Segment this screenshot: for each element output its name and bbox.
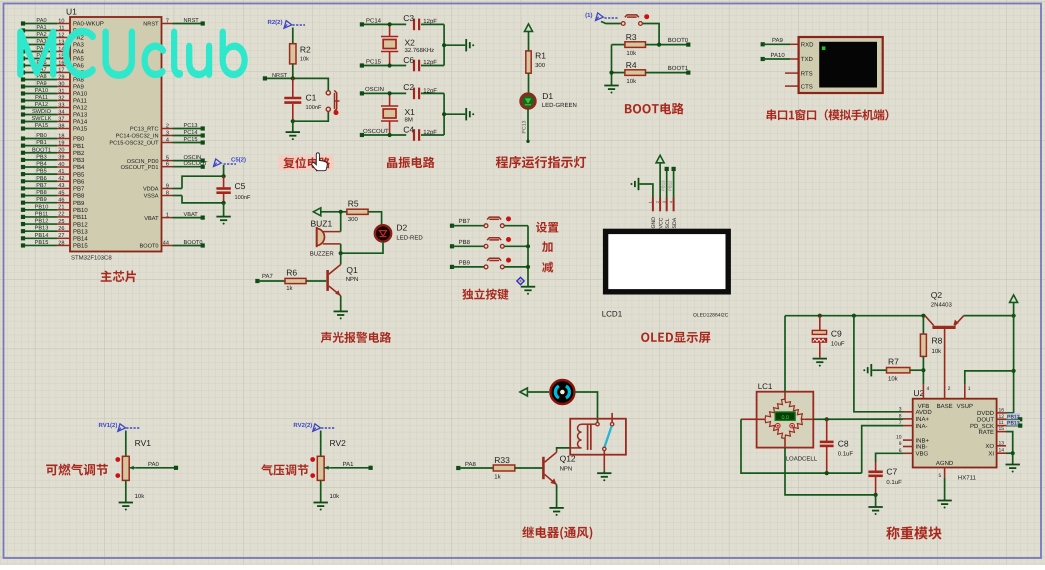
relay RL1 box — [570, 419, 626, 455]
relay coil — [570, 423, 599, 450]
U1 pin PB13 (pin 26) with wire — [21, 226, 88, 236]
label 声光报警电路 — [321, 332, 391, 343]
wire buzzer bottom to node — [340, 244, 342, 253]
wire PB7 to button — [452, 225, 484, 227]
junction C7 bottom — [874, 493, 878, 497]
svg-text:PC13: PC13 — [522, 120, 528, 133]
junction C8 bottom — [825, 471, 829, 475]
svg-text:Q12: Q12 — [560, 454, 576, 464]
probe R2(2) — [267, 19, 305, 28]
U2 left pin INB+ (10) — [903, 439, 913, 441]
svg-text:PB1: PB1 — [36, 140, 47, 146]
svg-text:RXD: RXD — [801, 42, 814, 49]
node OSCIN wire — [362, 92, 406, 94]
svg-text:AGND: AGND — [936, 460, 954, 467]
wire button to BOOT0 node — [643, 24, 659, 45]
svg-text:PA11: PA11 — [73, 98, 87, 105]
svg-text:PB0: PB0 — [36, 133, 47, 139]
svg-text:PA10: PA10 — [73, 91, 88, 98]
ground below relay — [597, 473, 611, 477]
svg-text:4: 4 — [927, 386, 930, 392]
ground right of X1 — [466, 108, 470, 120]
U1 pin PA2 (pin 12) with wire — [21, 32, 85, 42]
svg-text:AVDD: AVDD — [916, 409, 933, 416]
terminal PB9 — [450, 265, 454, 269]
loadcell LC1 box — [757, 392, 814, 448]
svg-text:PB9: PB9 — [73, 200, 85, 207]
svg-text:PB1: PB1 — [73, 143, 85, 150]
label OLED显示屏 — [641, 332, 710, 343]
wire PB8 to button — [452, 245, 484, 247]
wire LC1 top to rail — [784, 392, 786, 399]
svg-text:PB7: PB7 — [73, 186, 85, 193]
svg-text:PB8: PB8 — [459, 239, 471, 246]
LC1 display — [775, 412, 795, 421]
svg-text:22: 22 — [58, 212, 64, 218]
svg-text:PA1: PA1 — [36, 25, 46, 31]
junction NRST at C1 — [291, 76, 295, 80]
wire RATE to ground bus — [1006, 432, 1013, 454]
svg-text:VFB: VFB — [918, 403, 930, 410]
terminal PA10 — [761, 57, 765, 61]
U2 top pin VFB (4) — [922, 384, 924, 399]
wire PA7 to R6 — [257, 280, 285, 282]
svg-text:10k: 10k — [626, 50, 637, 57]
junction X1 nodes — [388, 91, 392, 95]
junction rail AVDD — [852, 314, 856, 318]
U1 pin PB8 (pin 45) with wire — [21, 190, 85, 200]
wire bus to ground — [1012, 453, 1014, 464]
U2 left pin VBG (6) — [903, 452, 913, 454]
svg-text:PC15: PC15 — [184, 137, 198, 143]
wire arrow to R5 — [321, 211, 347, 213]
U1 pin PA12 (pin 33) with wire — [21, 102, 88, 112]
U1 pin NRST (pin 7) with wire — [143, 18, 205, 28]
svg-text:PC14: PC14 — [366, 17, 382, 24]
svg-text:PC13: PC13 — [184, 123, 198, 129]
svg-text:OSCOUT: OSCOUT — [184, 161, 209, 167]
U1 pin PA4 (pin 14) with wire — [21, 46, 85, 56]
svg-text:9: 9 — [166, 183, 169, 189]
transistor Q12 NPN — [543, 450, 576, 485]
junction C5 bottom — [222, 201, 226, 205]
probe RV1(2) — [98, 422, 139, 432]
U1 label 主芯片 — [101, 270, 136, 282]
ground below AGND — [937, 501, 951, 505]
resistor R33 — [493, 455, 515, 480]
U1 pin PB4 (pin 40) with wire — [21, 162, 85, 172]
junction X2 right — [388, 22, 392, 26]
svg-text:1k: 1k — [286, 285, 293, 292]
svg-text:2: 2 — [948, 386, 951, 392]
wire D2 to collector node — [341, 241, 383, 253]
wire button PB9 to bus — [504, 266, 528, 268]
ground below RV2 — [314, 503, 328, 507]
label 称重模块 — [886, 526, 941, 539]
svg-text:PA4: PA4 — [73, 49, 85, 56]
ground left of R7 — [868, 364, 872, 376]
top rail wire left — [785, 315, 925, 317]
svg-text:PB13: PB13 — [35, 226, 49, 232]
U1 pin PA10 (pin 31) with wire — [21, 88, 88, 98]
junction collector node — [339, 251, 343, 255]
wire RV2 to ground — [320, 480, 322, 502]
svg-text:PC15-OSC32_OUT: PC15-OSC32_OUT — [109, 141, 159, 147]
svg-text:OLED12864I2C: OLED12864I2C — [693, 313, 729, 319]
junction power VSUP — [1012, 369, 1016, 373]
wire probe to RV1 — [125, 431, 127, 457]
svg-text:1k: 1k — [494, 473, 501, 480]
wire probe to button — [601, 22, 621, 24]
svg-text:BUZZER: BUZZER — [310, 250, 335, 257]
U1 pin PA8 (pin 29) with wire — [21, 74, 85, 84]
svg-text:42: 42 — [58, 176, 64, 182]
wire R5 to D2 — [368, 212, 382, 225]
svg-text:34: 34 — [58, 109, 64, 115]
transistor Q1 NPN — [328, 265, 359, 296]
wire PA9 to RXD — [763, 43, 790, 45]
capacitor C1 — [284, 78, 322, 121]
U1 pin PA5 (pin 15) with wire — [21, 53, 85, 63]
svg-text:CTS: CTS — [801, 83, 813, 90]
svg-text:D2: D2 — [396, 223, 407, 233]
power arrow left of motor — [520, 388, 528, 396]
wire Q12 emitter to ground — [556, 485, 558, 508]
terminal PC13 bottom — [526, 140, 529, 143]
capacitor C6 — [403, 55, 444, 71]
svg-text:NPN: NPN — [346, 276, 359, 283]
svg-text:NRST: NRST — [272, 73, 288, 79]
LED D1 LED-GREEN — [521, 91, 577, 109]
MCUclub watermark — [18, 29, 247, 78]
stub RTS — [785, 72, 799, 74]
svg-text:0.1uF: 0.1uF — [838, 451, 854, 458]
svg-text:Q1: Q1 — [346, 265, 358, 275]
svg-text:LCD1: LCD1 — [602, 310, 623, 319]
U1 pin PC14-OSC32_IN (pin 3) with wire — [116, 130, 205, 140]
svg-text:PB13: PB13 — [73, 228, 88, 235]
wire LC1 left to INA- loop — [757, 418, 766, 420]
U2 left pin AVDD (3) — [903, 411, 913, 413]
svg-text:R6: R6 — [286, 268, 297, 278]
push button PB9 — [484, 265, 488, 269]
wire probe to R2 — [292, 28, 294, 44]
svg-text:10k: 10k — [932, 348, 943, 355]
probe (1) — [585, 12, 618, 21]
ground below C1 — [286, 132, 300, 136]
wire R33 to Q12 base — [515, 467, 543, 469]
junction BOOT0 — [657, 43, 661, 47]
svg-text:(1): (1) — [585, 12, 592, 19]
svg-text:10k: 10k — [888, 376, 899, 383]
svg-text:10uF: 10uF — [831, 340, 845, 347]
junction R4 left — [609, 71, 613, 75]
capacitor C7 — [868, 462, 902, 495]
svg-text:12: 12 — [58, 32, 64, 38]
wire node to Q1 collector — [340, 253, 342, 264]
wire C7 to ground — [875, 495, 877, 507]
svg-text:10k: 10k — [626, 78, 637, 85]
svg-text:PA13: PA13 — [73, 112, 88, 119]
svg-text:BOOT1: BOOT1 — [32, 147, 51, 153]
svg-text:12: 12 — [999, 414, 1005, 420]
svg-text:PB12: PB12 — [73, 221, 88, 228]
svg-text:X1: X1 — [405, 107, 416, 117]
svg-text:INA+: INA+ — [916, 416, 930, 423]
wire DOUT to PB12 — [1006, 418, 1020, 420]
svg-text:1: 1 — [968, 386, 971, 392]
svg-text:300: 300 — [535, 62, 546, 69]
svg-text:43: 43 — [58, 183, 64, 189]
wire LC1 bottom to C7 — [784, 438, 786, 447]
svg-text:INB+: INB+ — [916, 437, 930, 444]
capacitor C9 polarized — [812, 316, 845, 358]
push button BOOT — [621, 22, 625, 26]
wire R7 to junction — [910, 369, 924, 371]
svg-text:R1: R1 — [535, 51, 546, 61]
svg-text:10: 10 — [58, 18, 64, 24]
wire AGND to ground — [944, 478, 946, 501]
net flag PB13 — [1007, 420, 1021, 426]
svg-text:PB4: PB4 — [36, 162, 47, 168]
svg-text:14: 14 — [999, 448, 1005, 454]
wire probe to RV2 — [320, 431, 322, 457]
svg-text:C4: C4 — [403, 125, 414, 135]
svg-text:INB-: INB- — [916, 444, 928, 451]
svg-text:PB10: PB10 — [73, 207, 88, 214]
svg-text:PB3: PB3 — [73, 157, 85, 164]
svg-text:PA9: PA9 — [772, 37, 784, 44]
U1 pin PB10 (pin 21) with wire — [21, 204, 88, 214]
svg-text:0.0: 0.0 — [781, 415, 789, 421]
label 串口1窗口（模拟手机端） — [767, 109, 889, 120]
svg-text:PB13: PB13 — [1007, 421, 1020, 427]
ground below key bus — [521, 287, 535, 291]
svg-text:GND: GND — [651, 217, 657, 229]
ground below C9 — [813, 359, 827, 363]
svg-text:PA10: PA10 — [771, 52, 786, 59]
svg-text:VBG: VBG — [916, 451, 929, 458]
svg-text:2N4403: 2N4403 — [931, 302, 953, 309]
LC1 adjust dots — [776, 423, 795, 428]
wire Q2 emitter to power — [964, 315, 1014, 317]
U1 pin PB11 (pin 22) with wire — [21, 211, 88, 221]
wire AVDD drop — [854, 316, 903, 412]
wire R1 to D1 — [528, 73, 530, 94]
svg-text:RTS: RTS — [801, 70, 813, 77]
wire PA10 to TXD — [763, 58, 790, 60]
svg-text:16: 16 — [999, 407, 1005, 413]
svg-text:PB8: PB8 — [73, 193, 85, 200]
svg-text:OSCOUT_PD1: OSCOUT_PD1 — [121, 165, 159, 171]
svg-text:C6: C6 — [403, 55, 414, 65]
wire R3-R4 left bus — [611, 45, 613, 86]
svg-text:PA14: PA14 — [73, 119, 88, 126]
node PC15 wire — [362, 65, 406, 67]
svg-text:PA10: PA10 — [35, 88, 48, 94]
svg-text:45: 45 — [58, 190, 64, 196]
svg-text:PB14: PB14 — [73, 236, 88, 243]
svg-text:C1: C1 — [306, 92, 317, 102]
svg-text:VSUP: VSUP — [957, 403, 973, 410]
wire R2 to NRST node — [292, 64, 294, 79]
U1 pin PA14 (pin 37) with wire — [21, 116, 88, 126]
svg-text:10k: 10k — [135, 493, 146, 500]
U1 pin PB15 (pin 28) with wire — [21, 240, 88, 250]
svg-text:PB10: PB10 — [35, 204, 49, 210]
U1 pin PB1 (pin 19) with wire — [21, 140, 85, 150]
svg-text:PA12: PA12 — [73, 105, 88, 112]
wire RV2 wiper to PA1 — [330, 467, 370, 469]
junction C5 top — [222, 174, 226, 178]
svg-text:10k: 10k — [300, 55, 309, 62]
terminal PA7 — [255, 279, 259, 283]
svg-text:3: 3 — [166, 130, 169, 136]
svg-text:RATE: RATE — [978, 429, 994, 436]
U2 top pin VSUP (1) — [964, 384, 966, 399]
svg-text:RV2: RV2 — [330, 438, 347, 448]
wire button PB7 to bus — [504, 225, 528, 227]
wire OLED SCL up — [666, 169, 668, 198]
svg-text:XI: XI — [988, 450, 994, 457]
wire PB9 to button — [452, 266, 484, 268]
svg-text:33: 33 — [58, 102, 64, 108]
svg-text:15: 15 — [999, 426, 1005, 432]
resistor R1 — [526, 51, 546, 74]
svg-text:6: 6 — [166, 162, 169, 168]
junction rail right — [1012, 314, 1016, 318]
svg-text:C8: C8 — [838, 439, 849, 449]
svg-text:DOUT: DOUT — [977, 417, 994, 424]
capacitor C5 — [216, 176, 251, 203]
wire OLED GND to side ground — [640, 184, 653, 198]
U1 pin OSCOUT_PD1 (pin 6) with wire — [121, 161, 208, 171]
junction key bus PB9 — [526, 265, 530, 269]
svg-text:BOOT1: BOOT1 — [668, 65, 689, 72]
svg-text:RV1: RV1 — [135, 438, 152, 448]
resistor R7 — [887, 357, 910, 383]
wire PD_SCK to PB13 — [1006, 425, 1020, 427]
svg-text:OSCIN: OSCIN — [184, 155, 202, 161]
capacitor C4 — [403, 125, 444, 141]
svg-text:BASE: BASE — [937, 403, 953, 410]
U1 pin VBAT (pin 1) with wire — [144, 212, 205, 222]
U1 pin OSCIN_PD0 (pin 5) with wire — [127, 155, 205, 165]
svg-text:39: 39 — [58, 155, 64, 161]
svg-text:31: 31 — [58, 88, 64, 94]
LCD1 OLED screen body — [606, 231, 729, 291]
svg-text:PA0: PA0 — [36, 18, 46, 24]
svg-text:PC14: PC14 — [184, 130, 198, 136]
svg-text:PB11: PB11 — [35, 211, 48, 217]
node PC14 wire — [362, 23, 406, 25]
svg-text:LED-GREEN: LED-GREEN — [542, 102, 577, 109]
svg-text:21: 21 — [58, 205, 64, 211]
label 气压调节 — [261, 464, 308, 475]
label BOOT电路 — [625, 103, 684, 115]
svg-text:100nF: 100nF — [235, 195, 251, 201]
U2 right pin DOUT (12) — [997, 418, 1006, 420]
wire RV1 wiper to PA0 — [135, 467, 176, 469]
svg-text:PA0: PA0 — [148, 461, 160, 468]
label 程序运行指示灯 — [496, 156, 586, 168]
ground right of X2 — [466, 39, 470, 51]
ground below C5 — [216, 217, 230, 221]
svg-text:29: 29 — [58, 74, 64, 80]
svg-text:BOOT0: BOOT0 — [140, 244, 159, 250]
wire X2 to ground — [443, 24, 445, 65]
blue marker diamond — [517, 277, 524, 284]
svg-text:LOADCELL: LOADCELL — [786, 455, 818, 462]
stub CTS — [785, 85, 799, 87]
ground below C7 — [868, 507, 882, 511]
wire R8 to R7 junction — [922, 356, 924, 384]
wire relay common to ground — [603, 470, 605, 473]
cursor hand over label — [312, 153, 328, 171]
svg-text:26: 26 — [58, 226, 64, 232]
svg-text:BOOT0: BOOT0 — [184, 240, 203, 246]
U1 pin PB9 (pin 46) with wire — [21, 197, 85, 207]
node OSCOUT wire — [362, 134, 406, 136]
svg-text:C7: C7 — [886, 467, 897, 477]
svg-text:PA5: PA5 — [73, 56, 85, 63]
svg-text:19: 19 — [58, 140, 64, 146]
svg-text:1: 1 — [166, 212, 169, 218]
svg-text:LED-RED: LED-RED — [396, 235, 423, 242]
svg-text:PA2: PA2 — [36, 32, 46, 38]
junction R8 R7 — [921, 368, 925, 372]
capacitor C8 — [820, 419, 854, 473]
svg-text:VDDA: VDDA — [143, 187, 159, 193]
wire probe to C5 node — [223, 165, 225, 176]
svg-text:PA15: PA15 — [35, 123, 48, 129]
HX711 U2 body — [913, 399, 997, 468]
junction rail R8 — [921, 314, 925, 318]
U1 pin PA7 (pin 17) with wire — [21, 67, 85, 77]
svg-text:RV2(2): RV2(2) — [293, 422, 312, 429]
svg-text:10k: 10k — [330, 493, 341, 500]
wire OLED VCC to power — [659, 163, 661, 198]
svg-text:R2(2): R2(2) — [267, 19, 282, 26]
svg-text:13: 13 — [999, 440, 1005, 446]
svg-text:32.768KHz: 32.768KHz — [405, 47, 435, 54]
svg-text:SCL: SCL — [665, 218, 671, 228]
probe RV2(2) — [293, 422, 334, 432]
U1 pin PA3 (pin 13) with wire — [21, 39, 85, 49]
U1 pin PB5 (pin 41) with wire — [21, 169, 85, 179]
wire VDDA to C5 top — [182, 176, 224, 188]
svg-text:11: 11 — [59, 25, 65, 31]
svg-text:PA3: PA3 — [73, 42, 85, 49]
wire DVDD to power — [1006, 412, 1014, 414]
power vertical to DVDD — [1013, 302, 1015, 413]
svg-text:RV1(2): RV1(2) — [98, 422, 117, 429]
svg-text:DVDD: DVDD — [977, 410, 995, 417]
svg-text:18: 18 — [58, 133, 64, 139]
svg-text:12pF: 12pF — [423, 87, 437, 94]
svg-text:300: 300 — [348, 216, 359, 223]
U1 pin PA6 (pin 16) with wire — [21, 60, 85, 70]
resistor R2 — [290, 44, 311, 64]
svg-text:PB12: PB12 — [35, 219, 49, 225]
capacitor C3 — [403, 13, 444, 30]
U2 right pin XO (13) — [997, 445, 1006, 447]
svg-text:R8: R8 — [932, 336, 943, 346]
RV1 adjust dots — [115, 457, 120, 462]
U2 left pin INA+ (8) — [903, 418, 913, 420]
svg-text:NPN: NPN — [560, 465, 573, 472]
svg-text:PB13: PB13 — [661, 180, 666, 191]
